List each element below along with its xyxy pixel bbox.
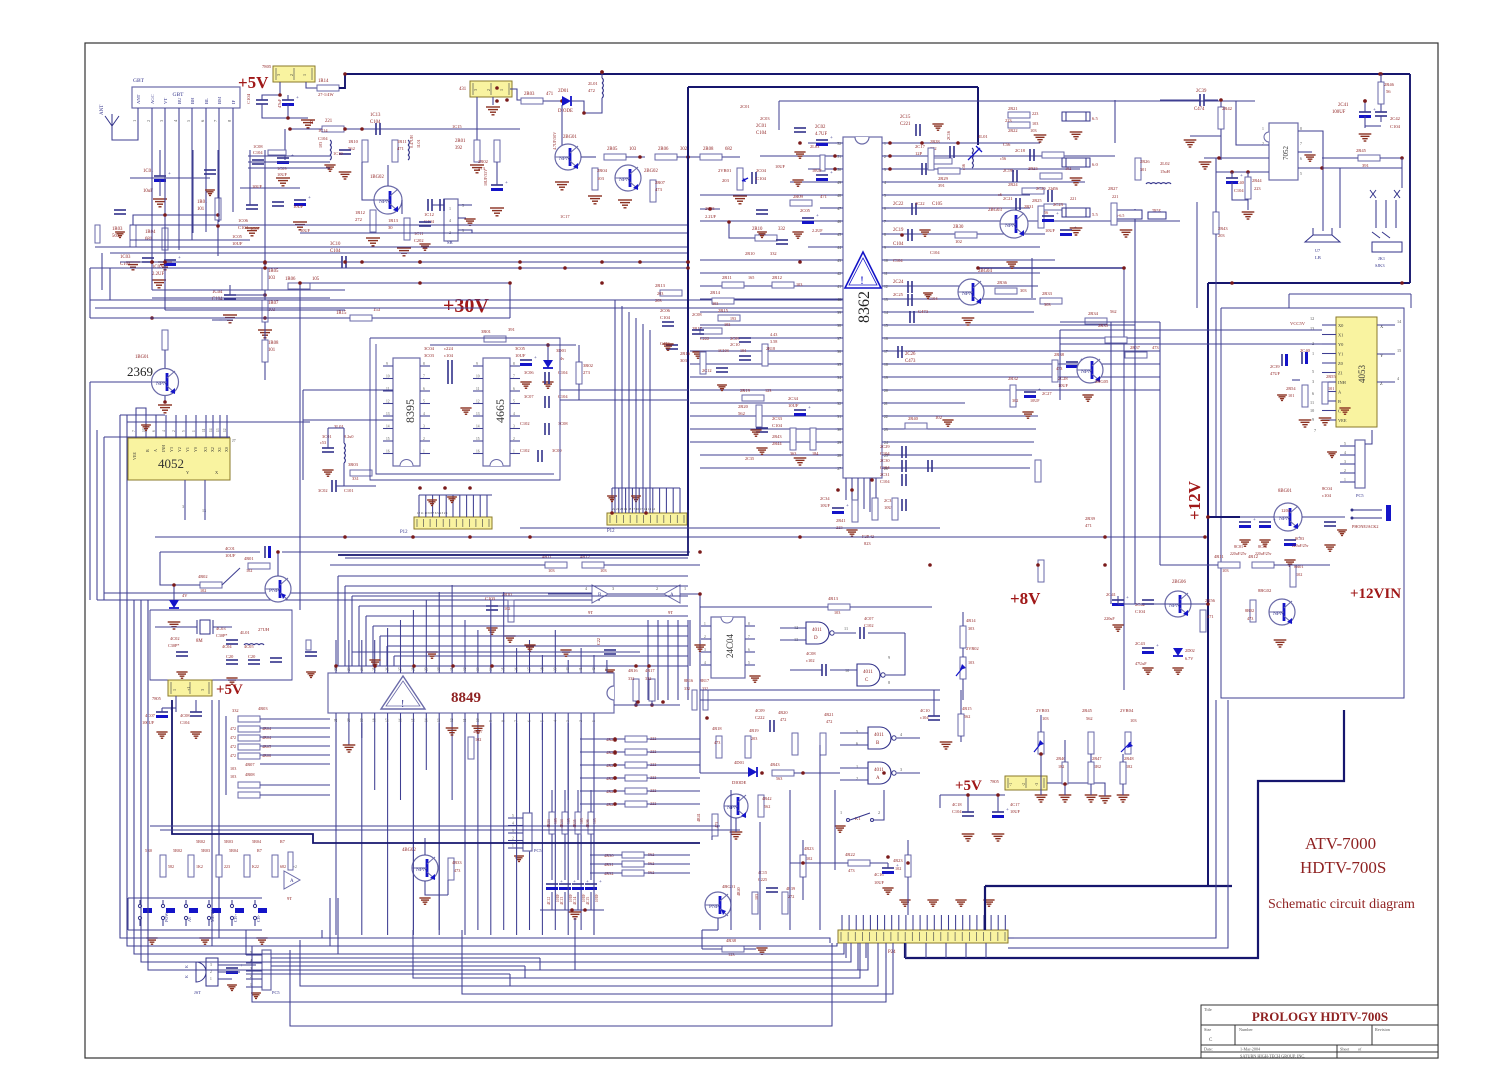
label 4R02 [198, 574, 208, 579]
junction [263, 293, 267, 297]
svg-text:B: B [1338, 399, 1341, 404]
capacitor 5C01 [226, 964, 243, 974]
wire [150, 610, 292, 680]
wire [779, 100, 1255, 102]
label C102 [520, 421, 530, 426]
svg-text:11: 11 [884, 272, 888, 276]
svg-text:331: 331 [352, 476, 360, 481]
svg-text:332: 332 [645, 676, 651, 681]
label 2R06 [658, 147, 669, 152]
wire [120, 261, 342, 263]
svg-text:182: 182 [1058, 764, 1064, 769]
capacitor 1C07 [294, 196, 311, 206]
label 562 [964, 714, 970, 719]
svg-text:C202: C202 [414, 238, 424, 243]
resistor 4R03 [238, 716, 260, 722]
label C104 [253, 150, 263, 155]
svg-text:14: 14 [386, 425, 390, 429]
svg-text:1: 1 [592, 720, 596, 722]
label 2R26 [1140, 159, 1150, 164]
wire [677, 620, 679, 700]
label 2 [146, 120, 151, 122]
label 2R27 [1108, 186, 1118, 191]
wire [890, 168, 1080, 170]
label 103 [580, 818, 584, 824]
wire [564, 790, 566, 812]
wire [948, 915, 950, 930]
label 4C05 [244, 644, 254, 649]
wire [580, 803, 625, 805]
svg-text:23: 23 [884, 428, 888, 432]
svg-text:12: 12 [386, 400, 390, 404]
capacitor 4C08 [190, 712, 202, 716]
wire [134, 600, 844, 954]
label 2R07 [655, 180, 666, 185]
label Y0 [1338, 342, 1344, 347]
wire [905, 710, 1344, 958]
svg-text:2C06: 2C06 [660, 308, 671, 313]
svg-text:4R12: 4R12 [1248, 554, 1259, 559]
wire [472, 495, 474, 517]
label 184 [812, 451, 819, 456]
wire [162, 707, 176, 709]
label 4C15 [586, 897, 590, 905]
svg-text:1C15: 1C15 [452, 124, 462, 129]
wire [1365, 430, 1372, 444]
wire [303, 419, 393, 421]
wire [760, 155, 835, 157]
wire [372, 626, 374, 666]
svg-text:2R05: 2R05 [607, 147, 618, 152]
svg-text:3: 3 [900, 767, 902, 772]
svg-text:2BG03: 2BG03 [988, 208, 1002, 213]
wire [699, 660, 701, 773]
svg-text:2R20: 2R20 [738, 404, 749, 409]
wire [245, 930, 247, 955]
label 10 [476, 718, 480, 722]
svg-text:+: + [1006, 808, 1009, 813]
svg-text:47uF: 47uF [277, 98, 282, 108]
svg-text:10: 10 [884, 259, 888, 263]
label of [1358, 1047, 1362, 1052]
label 2C16 [946, 131, 951, 140]
label 1 [132, 120, 137, 122]
label 34 [489, 667, 493, 671]
wire [503, 663, 505, 673]
capacitor 2C16 [950, 146, 954, 158]
wire [835, 155, 843, 157]
label K [184, 965, 189, 968]
svg-text:2C16: 2C16 [946, 131, 951, 140]
ground [504, 636, 515, 642]
label C101 [344, 488, 354, 493]
ic 4665 [483, 358, 510, 466]
8849 notch [607, 686, 614, 700]
svg-text:4V: 4V [182, 593, 188, 598]
wire [438, 495, 440, 517]
svg-text:C: C [1338, 409, 1341, 414]
wire [1377, 381, 1395, 383]
label 1 [840, 810, 842, 815]
ground [1035, 795, 1048, 802]
svg-text:8: 8 [884, 233, 886, 237]
svg-text:7: 7 [513, 375, 515, 379]
svg-text:6: 6 [1312, 391, 1314, 396]
svg-text:184: 184 [812, 451, 819, 456]
wire [700, 337, 835, 339]
wire [204, 505, 206, 520]
label 48 [837, 194, 841, 198]
resistor 4R05 [238, 744, 260, 750]
resistor 2R39x [1035, 460, 1041, 482]
label 2 [704, 635, 706, 639]
svg-text:2R55: 2R55 [1326, 374, 1336, 379]
label 4BG01 [722, 884, 736, 889]
svg-text:CH-: CH- [256, 914, 261, 922]
label 11 [884, 272, 888, 276]
wire [374, 713, 376, 723]
wire [567, 660, 569, 663]
resistor 4R35 [575, 812, 581, 834]
wire [882, 272, 890, 274]
svg-text:3: 3 [1312, 379, 1314, 384]
svg-text:2R47: 2R47 [1092, 756, 1102, 761]
label 13 [884, 298, 888, 302]
label 8R16 [684, 678, 693, 683]
24C04 notch [721, 617, 733, 623]
wire [626, 156, 645, 158]
svg-text:2.2UF: 2.2UF [705, 214, 717, 219]
ground [955, 900, 966, 906]
svg-text:+: + [168, 172, 171, 177]
ground [1172, 668, 1183, 674]
label 1 [172, 689, 177, 691]
wire [1240, 516, 1274, 518]
label 4R41 [696, 813, 701, 822]
wire [464, 620, 466, 663]
svg-text:7: 7 [748, 635, 750, 639]
svg-text:PC5: PC5 [272, 990, 280, 995]
label 1C07 [250, 226, 261, 231]
button 6 [253, 900, 267, 926]
cap marks [1292, 379, 1300, 381]
svg-text:NPN: NPN [619, 177, 630, 183]
wire [601, 72, 603, 78]
svg-text:K: K [184, 965, 189, 968]
label 1 [1262, 127, 1264, 131]
svg-text:3: 3 [612, 586, 614, 591]
wire [841, 915, 843, 930]
wire [290, 128, 322, 130]
svg-text:c56: c56 [1000, 156, 1006, 161]
label C104 [1234, 188, 1244, 193]
svg-text:37: 37 [528, 667, 532, 671]
label 2C20 [1036, 186, 1046, 191]
label 823 [864, 541, 871, 546]
label PC5 [1356, 493, 1364, 498]
label 27UH [258, 627, 270, 632]
svg-text:332: 332 [770, 251, 777, 256]
label 1C13 [370, 113, 381, 118]
wire [205, 150, 207, 232]
resistor 4R23 [905, 855, 911, 877]
wire [580, 777, 625, 779]
resistor R7 [272, 855, 278, 877]
wire [451, 723, 453, 800]
label 3 [250, 967, 252, 971]
label 2 [486, 89, 491, 91]
wire [119, 600, 121, 935]
label 2C19 [893, 228, 904, 233]
label 4R16 [628, 668, 638, 673]
label 4R24 [606, 737, 616, 742]
svg-text:15: 15 [386, 437, 390, 441]
svg-text:NPN: NPN [1279, 516, 1290, 522]
inductor 2L01 [602, 78, 603, 98]
label -2 [1022, 783, 1026, 786]
label 4R35 [572, 819, 577, 828]
svg-text:165: 165 [748, 275, 754, 280]
label 3 [423, 425, 425, 429]
wire [962, 648, 964, 657]
inductor 2L02 [1146, 183, 1171, 184]
label 2R46 [1056, 756, 1066, 761]
wire [96, 430, 98, 600]
svg-text:NPN: NPN [727, 805, 738, 811]
label C104 [952, 809, 962, 814]
resistor 1R03 [130, 225, 136, 247]
wire [300, 282, 510, 284]
wire [869, 915, 871, 930]
svg-text:302: 302 [680, 147, 688, 152]
junction [613, 776, 617, 780]
wire [1118, 603, 1165, 605]
svg-text:PC5: PC5 [534, 848, 542, 853]
wire [151, 150, 153, 290]
wire [1220, 129, 1222, 160]
svg-text:4R14: 4R14 [966, 618, 976, 623]
resistor 2R37 [1125, 352, 1147, 358]
wire [1117, 596, 1119, 604]
wire [1298, 131, 1323, 231]
wire [195, 700, 197, 712]
label 2R34 [1088, 311, 1099, 316]
transistor [412, 855, 438, 881]
transistor [958, 279, 984, 305]
label 4C08 [180, 713, 190, 718]
label 4 [512, 822, 514, 826]
svg-text:24C04: 24C04 [725, 633, 735, 658]
capacitor 2C25 [908, 294, 912, 306]
ground [464, 219, 475, 225]
capacitor C103 [486, 606, 498, 610]
wire [246, 970, 262, 972]
label 30 [837, 428, 841, 432]
wire [103, 437, 105, 600]
connector P24 [838, 930, 1008, 943]
svg-text:+: + [816, 214, 819, 219]
svg-text:4C17: 4C17 [1010, 802, 1020, 807]
label 18 [373, 718, 377, 722]
wire [882, 376, 890, 378]
connector P12 connector 1 [414, 517, 492, 529]
svg-text:101: 101 [1328, 386, 1334, 391]
wire [90, 267, 688, 269]
wire [1340, 463, 1355, 465]
svg-text:Size: Size [1204, 1027, 1211, 1032]
label 1C08 [253, 144, 263, 149]
svg-text:2: 2 [878, 810, 880, 815]
label 4.43 [770, 332, 777, 337]
svg-text:2C25: 2C25 [893, 292, 904, 297]
svg-text:+: + [1038, 388, 1041, 393]
wire [89, 268, 91, 318]
label 1 [250, 983, 252, 987]
svg-text:C104: C104 [1234, 188, 1244, 193]
svg-text:NPN: NPN [559, 156, 570, 162]
wire [413, 930, 860, 978]
wire [541, 723, 543, 740]
label 37 [528, 667, 532, 671]
svg-text:C105: C105 [932, 202, 943, 207]
svg-text:29: 29 [837, 441, 841, 445]
junction [900, 233, 904, 237]
ground [199, 938, 210, 944]
label 4 [250, 959, 252, 963]
label 17 [884, 350, 888, 354]
label 21 [334, 718, 338, 722]
label 10UF [225, 553, 236, 558]
label 220uF/25v [1230, 552, 1247, 556]
label C473 [918, 309, 929, 314]
wire [246, 962, 262, 964]
svg-text:103: 103 [318, 142, 323, 148]
label P12 [400, 530, 408, 535]
label 5 [1300, 172, 1302, 176]
wire [890, 142, 1040, 144]
ground [932, 124, 943, 130]
svg-text:3: 3 [513, 425, 515, 429]
ground [176, 672, 187, 678]
wire [882, 259, 890, 261]
label +5V [955, 778, 982, 794]
capacitor 4C06 [270, 658, 282, 662]
label 5 [186, 119, 191, 122]
label P24 [888, 950, 896, 955]
svg-text:8BG02: 8BG02 [1258, 588, 1272, 593]
ground [1337, 530, 1347, 535]
svg-text:D: D [814, 636, 818, 641]
ground [923, 293, 933, 298]
transistor [265, 576, 291, 602]
capacitor 4C14 [572, 880, 589, 890]
svg-text:36: 36 [515, 667, 519, 671]
wire [1204, 157, 1269, 159]
junction [278, 93, 282, 97]
wire [387, 663, 389, 673]
resistor 1R05 [262, 268, 268, 290]
wire [464, 713, 466, 723]
label 2L03 [810, 144, 820, 149]
svg-text:103: 103 [724, 322, 730, 327]
wire [419, 494, 492, 496]
svg-text:SB: SB [447, 240, 453, 245]
svg-text:473: 473 [1152, 345, 1159, 350]
resistor 2R25 [1044, 204, 1066, 210]
label 2R03 [524, 92, 535, 97]
svg-text:2R34: 2R34 [1088, 311, 1099, 316]
svg-text:LB: LB [1315, 255, 1321, 260]
label POW [164, 913, 169, 922]
svg-text:7: 7 [1300, 142, 1302, 146]
junction [760, 771, 764, 775]
label 103 [230, 766, 236, 771]
label 4R33 [452, 860, 462, 865]
label 6 [856, 741, 858, 746]
wire [680, 593, 700, 595]
svg-text:2C39: 2C39 [1196, 89, 1207, 94]
svg-text:C104: C104 [880, 465, 890, 470]
wire [890, 389, 1160, 391]
resistor 4R21 [820, 733, 826, 755]
resistor 4R43 [772, 770, 794, 776]
svg-text:2R16: 2R16 [680, 351, 691, 356]
label 6.5-6.5 [1113, 213, 1124, 218]
svg-text:27: 27 [837, 467, 841, 471]
label 563 [776, 776, 782, 781]
wire [383, 428, 393, 430]
label C30P* [168, 643, 179, 648]
label SJK3 [1375, 263, 1385, 268]
resistor 2R45b [1088, 732, 1094, 754]
resistor 4R02 [200, 582, 222, 588]
label 221 [1070, 196, 1076, 201]
4053 label [1357, 365, 1367, 384]
label 2C21 [1003, 196, 1013, 201]
label 37 [837, 337, 841, 341]
label X1 [217, 447, 222, 452]
label 222 [650, 801, 656, 806]
svg-text:2R38: 2R38 [1054, 352, 1065, 357]
resistor 2R40 [905, 423, 927, 429]
label 16 [386, 450, 390, 454]
wire [835, 415, 843, 417]
label 2 [210, 970, 212, 974]
label 6 [884, 207, 886, 211]
wire [383, 415, 393, 417]
wire [835, 207, 843, 209]
svg-text:223: 223 [1254, 186, 1261, 191]
label 38 [837, 324, 841, 328]
label 4 [585, 586, 588, 591]
label 3 [462, 228, 464, 233]
inductor L1 [408, 140, 409, 160]
ground [1327, 452, 1337, 457]
wire [1364, 116, 1366, 128]
wire [490, 713, 492, 723]
label 1C02 [152, 265, 163, 270]
label c56 [961, 164, 966, 170]
wire [554, 630, 556, 663]
label 2 [1312, 341, 1314, 346]
label 2R11 [722, 275, 732, 280]
label 9 [489, 720, 493, 722]
svg-text:5R02: 5R02 [173, 848, 182, 853]
capacitor 1C06 [246, 205, 258, 209]
label 35 [837, 363, 841, 367]
wire [1340, 445, 1355, 447]
label Y0 [193, 447, 198, 452]
